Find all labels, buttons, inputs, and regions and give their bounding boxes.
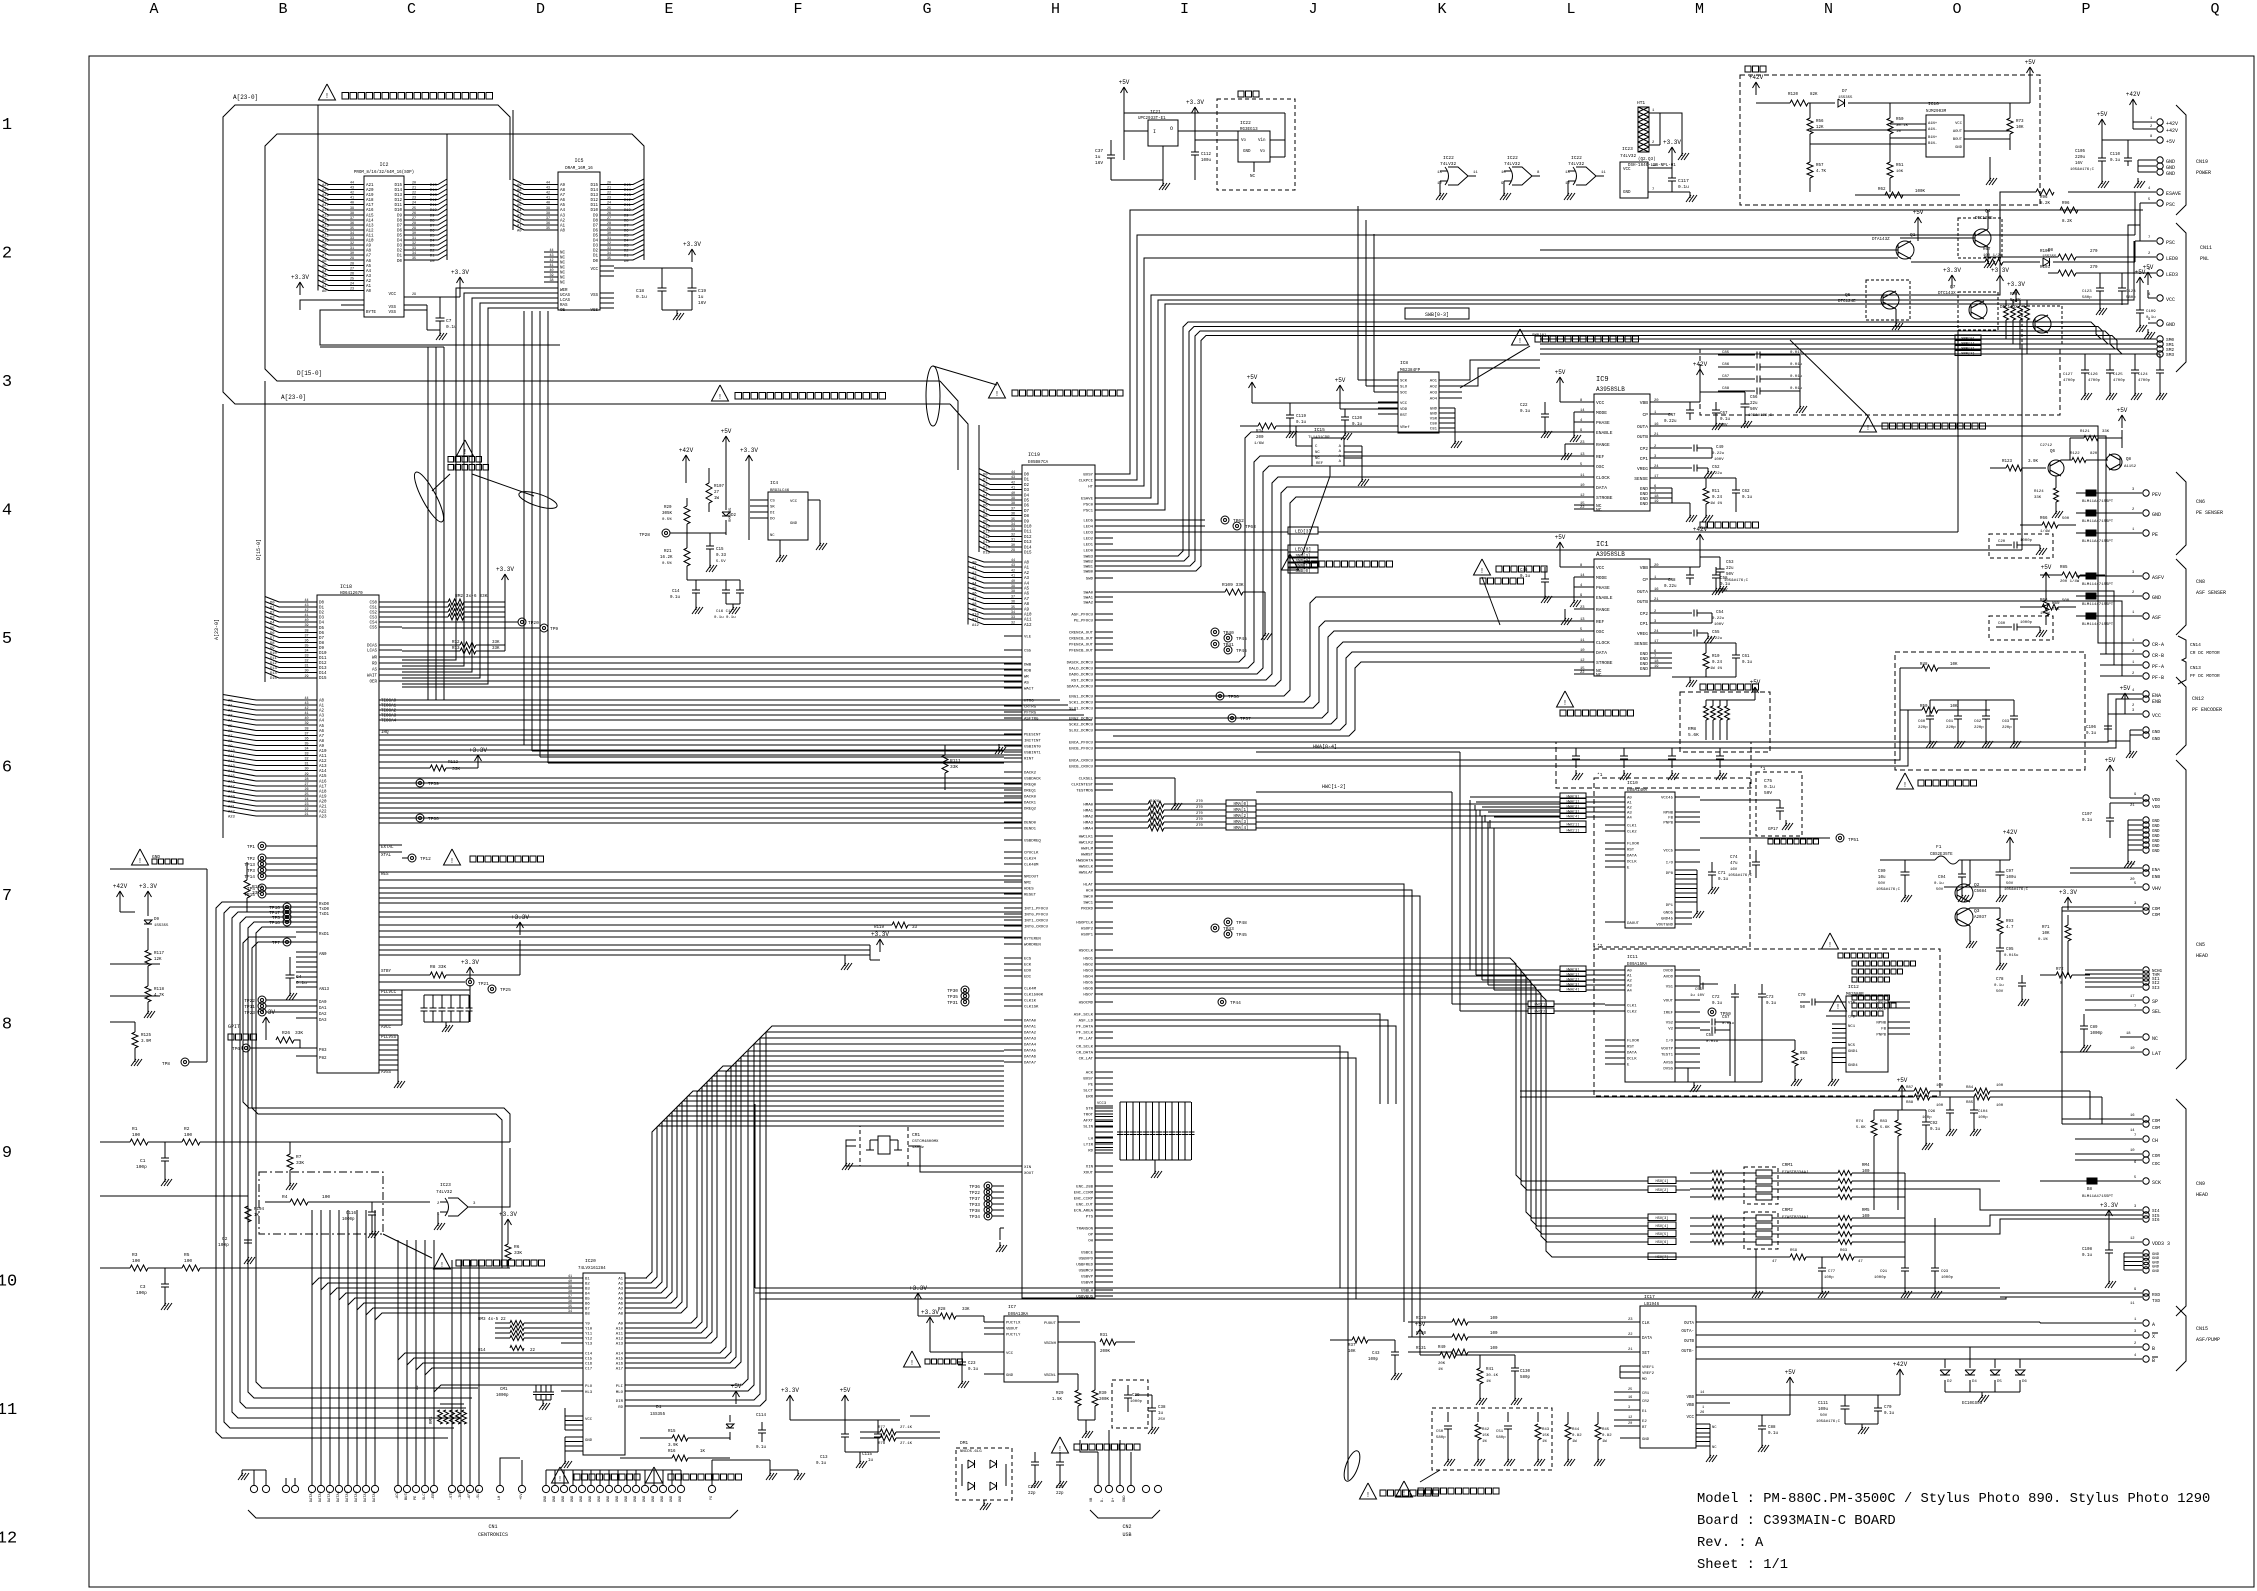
svg-text:CS3: CS3 [369,617,377,621]
svg-text:1W: 1W [1602,1440,1607,1444]
svg-text:A13: A13 [366,225,374,229]
CN1 connector circles [250,1485,257,1492]
svg-text:11: 11 [0,1401,17,1420]
svg-text:DATA2: DATA2 [319,1491,323,1502]
svg-text:TP21: TP21 [478,981,489,987]
svg-text:PFTRG: PFTRG [1024,712,1037,716]
svg-text:CR1: CR1 [1642,1392,1650,1396]
svg-text:1K: 1K [700,1450,706,1454]
svg-text:DI: DI [770,512,775,516]
svg-text:DCAS: DCAS [367,645,378,649]
STBY FWE [379,974,430,976]
svg-text:VCC1: VCC1 [1876,1002,1886,1006]
svg-text:DATA4: DATA4 [1024,1044,1037,1048]
svg-text:A9: A9 [517,184,522,188]
svg-text:33K: 33K [295,1030,303,1036]
svg-text:VREF2: VREF2 [1642,1372,1655,1376]
svg-text:74LV32: 74LV32 [1440,161,1457,167]
svg-text:SWB0: SWB0 [1083,571,1093,575]
svg-text:22: 22 [412,192,416,196]
guard ring note bottom [1341,1449,1363,1483]
svg-text:30.1K: 30.1K [1486,1374,1499,1378]
svg-text:OUTB: OUTB [1637,434,1648,440]
bus vertical to CPU D pins [264,381,266,682]
svg-text:+5V: +5V [2105,757,2116,764]
svg-text:DATA3: DATA3 [1024,1038,1037,1042]
svg-text:VIN: VIN [1848,1002,1856,1006]
SI4 SI5 SI6 long wires [1852,1180,2000,1182]
svg-text:D12: D12 [394,199,402,203]
svg-text:D12: D12 [590,199,598,203]
svg-text:A11: A11 [366,235,374,239]
svg-text:100V: 100V [1714,458,1724,462]
svg-text:C20: C20 [1998,540,2006,544]
IC9 OUTA OUTB to CR motor [1672,426,2106,643]
svg-text:BUSY: BUSY [405,1491,409,1500]
svg-text:R120: R120 [1788,93,1799,97]
svg-text:R119: R119 [874,926,885,930]
svg-text:270: 270 [2090,266,2098,270]
svg-text:7: 7 [2134,1134,2136,1138]
svg-text:P6: P6 [2130,863,2135,867]
svg-text:D12: D12 [624,199,632,203]
svg-text:+42V: +42V [2166,121,2178,127]
svg-text:26: 26 [412,212,416,216]
svg-text:GND: GND [1640,666,1649,672]
svg-text:ASF_LD: ASF_LD [1079,1020,1094,1024]
gnd guard note 1 [552,1467,569,1483]
svg-text:18: 18 [1654,495,1659,499]
svg-text:SWC1: SWC1 [1083,902,1093,906]
svg-text:C5684: C5684 [1974,890,1987,894]
svg-text:C1: C1 [140,1158,146,1164]
svg-text:A1: A1 [319,705,325,709]
svg-text:11: 11 [1473,171,1478,175]
svg-text:R5: R5 [184,1252,190,1258]
VHV pin [2000,886,2142,888]
svg-text:A2: A2 [319,710,325,714]
C57 C58 caps [1711,1019,1713,1026]
svg-text:CLK2: CLK2 [1627,831,1637,835]
svg-text:SI4: SI4 [2152,1210,2160,1214]
Q5 DTC124E [1866,280,1910,320]
svg-text:CN9: CN9 [2196,1181,2205,1187]
svg-text:SDATA_DCMCU: SDATA_DCMCU [1067,686,1094,690]
svg-text:IC8: IC8 [1400,360,1408,366]
svg-text:820: 820 [2090,452,2098,456]
svg-text:0.1u: 0.1u [2110,159,2121,163]
VCC wires to IC20 [910,1415,930,1417]
svg-text:HT1: HT1 [1637,100,1645,106]
IC20 VCC pins [565,1415,583,1417]
svg-text:GND: GND [2152,736,2160,742]
svg-text:HWA[2]: HWA[2] [1567,805,1580,810]
svg-text:28: 28 [607,222,611,226]
svg-text:A11: A11 [319,755,327,759]
svg-text:!: ! [1518,338,1522,346]
svg-text:GND: GND [2152,835,2160,839]
svg-text:D6: D6 [270,632,275,636]
svg-text:10K: 10K [1348,1350,1356,1354]
svg-text:A17: A17 [322,204,329,208]
svg-text:42: 42 [350,192,354,196]
svg-text:REF: REF [1596,619,1605,625]
CN2 USB connector [1094,1485,1101,1492]
svg-text:OH: OH [1088,1240,1093,1244]
svg-text:EC10GS08: EC10GS08 [1962,1402,1983,1406]
svg-text:C25: C25 [1056,1486,1064,1490]
svg-text:D11: D11 [983,531,991,535]
svg-text:40: 40 [1011,492,1015,496]
svg-text:50V: 50V [1764,790,1772,796]
svg-text:D12: D12 [270,662,278,666]
svg-text:A15: A15 [322,215,330,219]
svg-text:R96: R96 [2040,196,2048,200]
svg-text:VBINL: VBINL [1044,1374,1057,1378]
svg-text:C54: C54 [1716,611,1724,615]
svg-text:K: K [1437,1,1446,18]
svg-text:Y13: Y13 [585,1343,593,1347]
svg-text:C16: C16 [585,1363,593,1367]
svg-text:HSO4: HSO4 [1083,976,1093,980]
svg-text:+5V: +5V [2143,264,2154,271]
svg-text:D2: D2 [397,250,403,254]
svg-text:270: 270 [1196,806,1204,810]
svg-text:VCC2: VCC2 [1876,1008,1886,1012]
C79 cap [1811,999,1813,1006]
IC2 left control pins [341,299,364,301]
svg-text:+3.3V: +3.3V [139,883,157,890]
svg-text:MLO: MLO [616,1391,624,1395]
svg-text:HSO3: HSO3 [1083,970,1093,974]
svg-text:NC5: NC5 [1848,1044,1856,1048]
svg-text:AVSS: AVSS [1663,1062,1673,1066]
svg-text:100: 100 [1490,1332,1498,1336]
svg-text:GND1: GND1 [1848,1050,1858,1054]
svg-text:R10: R10 [1712,655,1720,659]
HSO wire bundle from IC19 [1113,958,1648,1181]
svg-text:HLAT: HLAT [1083,884,1093,888]
svg-text:C57: C57 [1722,1016,1730,1020]
svg-text:NPNB: NPNB [1876,1022,1886,1026]
svg-text:100p: 100p [1824,1276,1834,1280]
svg-text:C77: C77 [1828,1270,1836,1274]
IC21 regulator [1123,87,1125,100]
svg-text:CN14: CN14 [2190,642,2201,648]
svg-text:!: ! [910,1360,914,1368]
svg-text:VSS: VSS [388,311,396,315]
svg-text:22: 22 [305,808,309,812]
svg-text:+3.3V: +3.3V [921,1309,939,1316]
R29 R30 C29 [1077,1374,1079,1390]
svg-text:ENC_28B: ENC_28B [1076,1186,1093,1190]
IC19 right pins [1095,473,1113,475]
svg-text:R118: R118 [154,988,165,992]
svg-text:GND: GND [589,1496,593,1502]
svg-text:1K: 1K [1800,1058,1806,1062]
svg-text:A2: A2 [366,280,372,284]
svg-text:OSC: OSC [1596,629,1605,635]
svg-text:100p: 100p [1978,1116,1988,1120]
svg-text:D15: D15 [983,552,991,556]
svg-text:1.5K: 1.5K [1052,1398,1063,1402]
svg-text:GND: GND [2152,850,2160,854]
svg-text:VCC: VCC [2152,713,2161,719]
svg-text:IC2: IC2 [379,162,388,168]
svg-text:30: 30 [350,252,354,256]
svg-text:*1: *1 [1597,772,1603,778]
svg-text:SCK2_DCMCU: SCK2_DCMCU [1069,724,1094,728]
svg-text:D14: D14 [394,189,402,193]
RXD TXD pins [2000,1292,2142,1294]
C114 [761,1422,763,1430]
dashed box caps row [1556,742,1751,788]
svg-text:CLK1K: CLK1K [1024,1000,1037,1004]
svg-text:A16: A16 [366,209,374,213]
svg-text:CH: CH [2152,1138,2158,1144]
svg-text:ENC_CUT: ENC_CUT [1076,1204,1093,1208]
svg-text:C43: C43 [1372,1352,1380,1356]
svg-text:A: A [2152,1322,2155,1328]
svg-text:A5: A5 [618,1298,623,1302]
svg-text:NC: NC [560,257,566,261]
svg-text:0.1u: 0.1u [1742,661,1753,665]
svg-text:270: 270 [1196,818,1204,822]
svg-text:TP9: TP9 [550,626,558,632]
R67 D8 wire [1911,261,1985,263]
svg-text:A20: A20 [322,189,330,193]
svg-text:CLK2: CLK2 [1627,1011,1637,1015]
svg-text:CLK48M: CLK48M [1024,864,1039,868]
svg-text:ENCA_CROCU: ENCA_CROCU [1069,760,1094,764]
svg-text:BT: BT [1642,1426,1647,1430]
svg-text:R4: R4 [282,1194,288,1200]
svg-text:+3.3V: +3.3V [2007,281,2025,288]
svg-text:I: I [1153,129,1156,135]
svg-text:C47: C47 [1668,414,1676,418]
IC10 E09A14RA dashed box [1594,778,1750,947]
svg-text:TP8: TP8 [162,1061,170,1067]
power arrows IC20 [789,1395,791,1408]
svg-text:D4: D4 [397,240,403,244]
svg-text:LED2: LED2 [1083,538,1093,542]
svg-text:D1: D1 [270,607,275,611]
svg-text:VDD3 3: VDD3 3 [2152,1241,2170,1247]
svg-text:NC: NC [1315,451,1320,455]
svg-text:NC: NC [560,272,566,276]
svg-text:C80: C80 [1430,423,1438,427]
svg-text:!: ! [558,1476,562,1484]
svg-text:A9: A9 [1024,609,1030,613]
svg-text:IC1: IC1 [1596,541,1609,549]
TP column right of IC19 [1221,516,1229,524]
IC19 D bus pins [1004,473,1022,475]
svg-text:D4: D4 [270,622,275,626]
svg-text:100: 100 [132,1132,140,1138]
svg-text:32: 32 [1011,534,1015,538]
svg-text:R69: R69 [2052,602,2060,606]
svg-text:R57: R57 [1816,164,1824,168]
Q4 transistor [1958,218,2002,258]
svg-text:C130: C130 [1520,1370,1531,1374]
svg-text:X: X [2152,1334,2155,1340]
svg-text:C126: C126 [2088,373,2098,377]
svg-text:3.9M: 3.9M [141,1040,152,1044]
svg-text:RM7: RM7 [2010,291,2018,297]
svg-text:0.1u: 0.1u [1884,1412,1895,1416]
svg-text:A10: A10 [319,750,327,754]
IC8 pin wires [1357,206,1359,380]
svg-text:CENTRONICS: CENTRONICS [478,1532,508,1538]
svg-text:20: 20 [1654,564,1659,568]
svg-text:VCC: VCC [388,293,396,297]
svg-text:OUTB: OUTB [1684,1340,1695,1344]
svg-text:A18: A18 [322,199,330,203]
svg-text:105&#176;C: 105&#176;C [2004,888,2029,892]
svg-text:R103: R103 [2040,266,2051,270]
svg-text:TxD0: TxD0 [319,908,330,912]
svg-text:D11: D11 [430,204,438,208]
svg-text:PUCTLY: PUCTLY [1006,1334,1021,1338]
svg-text:D14: D14 [1024,547,1032,551]
svg-text:17: 17 [1654,640,1659,644]
svg-text:C63: C63 [2002,720,2010,724]
svg-text:!: ! [1563,700,1567,708]
svg-text:USBMCV: USBMCV [1079,1270,1094,1274]
svg-text:!: ! [325,93,329,101]
svg-text:!: ! [652,1476,656,1484]
CN14 CR DC MOTOR [2100,642,2142,644]
svg-text:IC22: IC22 [1240,120,1251,126]
svg-text:A12: A12 [1024,624,1032,628]
svg-text:USBVP: USBVP [1081,1276,1094,1280]
svg-text:RES: RES [381,873,389,877]
svg-text:0.1u: 0.1u [1678,184,1689,190]
svg-text:50V: 50V [1878,882,1886,886]
svg-text:D11: D11 [624,204,632,208]
svg-text:PEV: PEV [2152,492,2161,498]
svg-text:0.1u: 0.1u [1712,1002,1723,1006]
svg-text:D1: D1 [430,255,435,259]
svg-text:A3: A3 [972,577,977,581]
svg-text:A7: A7 [618,1308,623,1312]
svg-text:A17: A17 [319,786,327,790]
svg-text:D12: D12 [319,662,327,666]
svg-text:1W: 1W [1572,1440,1577,1444]
svg-text:COM: COM [2152,906,2160,912]
svg-text:A4: A4 [366,270,372,274]
svg-text:A6: A6 [972,593,977,597]
svg-text:ESAVE: ESAVE [2166,191,2181,197]
svg-text:PSC: PSC [2166,202,2175,208]
svg-text:R11: R11 [1712,490,1720,494]
svg-text:EDO: EDO [1024,970,1032,974]
svg-text:TIOCA4: TIOCA4 [381,720,397,724]
svg-text:PSC0: PSC0 [1083,504,1093,508]
svg-text:TP1: TP1 [247,844,255,850]
svg-text:LCAS: LCAS [560,299,571,303]
svg-text:D13: D13 [983,541,991,545]
svg-text:COR: COR [2152,1153,2160,1159]
svg-text:39: 39 [1011,585,1015,589]
svg-text:C97: C97 [2006,870,2014,874]
IC7 E09A13KA [1004,1316,1058,1382]
svg-text:GND: GND [2152,595,2161,601]
svg-text:100u: 100u [1201,159,1212,163]
wires SWB to SMB bus [1405,308,1469,319]
svg-text:D8: D8 [397,220,403,224]
C123 C128 caps [2099,273,2101,288]
CN1 status lines to IC20 [398,1353,561,1485]
svg-text:CLK1SK: CLK1SK [1024,1006,1039,1010]
svg-text:CP: CP [1642,412,1648,418]
svg-text:D12: D12 [1024,536,1032,540]
NC LAT pins [2120,1036,2142,1038]
svg-text:74LV32: 74LV32 [1568,161,1585,167]
svg-text:39: 39 [1011,497,1015,501]
svg-text:DSH-1640-L26-NPL-01: DSH-1640-L26-NPL-01 [1628,164,1676,168]
svg-text:100p: 100p [136,1164,147,1170]
svg-text:TRANSON: TRANSON [1076,1228,1093,1232]
svg-text:RST: RST [1627,1046,1635,1050]
svg-text:42: 42 [305,609,309,613]
svg-text:R100: R100 [2040,250,2051,254]
IC9 support parts [1559,377,1561,390]
svg-text:!: ! [450,858,454,866]
svg-text:34: 34 [412,252,416,256]
svg-text:8.2K: 8.2K [2040,202,2051,206]
svg-text:A4: A4 [228,720,233,724]
svg-text:CPUCLK: CPUCLK [1024,852,1039,856]
IC20 GND pins [565,1436,583,1438]
svg-text:D2: D2 [983,484,988,488]
svg-text:D12: D12 [983,536,991,540]
long wires CPU to IC19 group4 [379,871,1022,873]
CN8 ASF SENSER [2115,575,2142,577]
svg-text:TP13: TP13 [244,862,255,868]
svg-text:7: 7 [1654,655,1656,659]
svg-text:LH: LH [1088,1138,1093,1142]
svg-text:+42V: +42V [1893,1361,1908,1368]
C112 cap / +3.3V [1194,107,1196,120]
svg-text:C48: C48 [1668,579,1676,583]
svg-text:HSOP1: HSOP1 [1081,934,1094,938]
svg-text:TP14: TP14 [244,874,255,880]
HWA bus lines [1469,804,1471,970]
svg-text:A22: A22 [228,811,236,815]
svg-text:P82: P82 [319,1057,327,1061]
svg-text:C61: C61 [1742,655,1750,659]
ENC TP circles [984,1182,992,1190]
svg-text:PSC1: PSC1 [1083,510,1093,514]
svg-text:30.1K: 30.1K [1896,124,1909,128]
svg-text:0.01u: 0.01u [1722,1022,1735,1026]
svg-text:Vo: Vo [1260,150,1266,154]
svg-text:40: 40 [550,269,554,273]
svg-text:NC: NC [2152,1036,2158,1042]
svg-text:CLOCK: CLOCK [1596,475,1610,481]
svg-text:1000p: 1000p [342,1218,355,1222]
svg-text:33: 33 [912,926,918,930]
svg-text:+5V: +5V [520,1493,524,1500]
svg-text:HWA[0]: HWA[0] [1567,795,1580,800]
svg-text:D11: D11 [394,204,402,208]
svg-text:33K: 33K [2102,430,2110,434]
svg-text:PUOUT: PUOUT [1044,1322,1057,1326]
svg-text:26: 26 [350,273,354,277]
IC16 comparator [1926,115,1964,157]
svg-text:A19: A19 [319,796,327,800]
